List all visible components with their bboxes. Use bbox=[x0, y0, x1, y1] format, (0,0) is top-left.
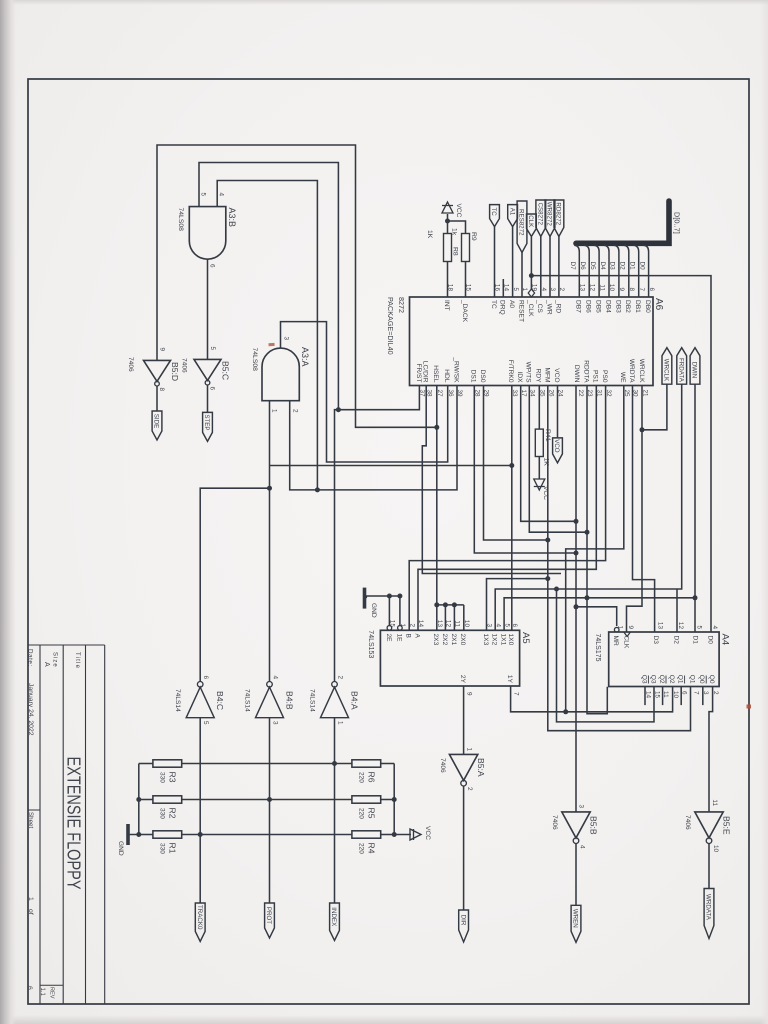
svg-text:Q1: Q1 bbox=[688, 675, 695, 684]
svg-text:12: 12 bbox=[588, 284, 595, 292]
title block bbox=[104, 645, 106, 1004]
svg-text:74LS08: 74LS08 bbox=[251, 348, 258, 372]
wire A4 output stub bbox=[662, 687, 664, 706]
svg-text:CLK: CLK bbox=[527, 215, 534, 228]
wire 2E to GND bbox=[388, 596, 390, 626]
wire LC/DIR net bbox=[422, 386, 561, 574]
svg-text:R8: R8 bbox=[452, 247, 459, 256]
wire bus tap D4 to pin DB4 bbox=[604, 245, 609, 297]
svg-text:B5:D: B5:D bbox=[170, 362, 180, 381]
svg-text:1E: 1E bbox=[395, 634, 402, 643]
junction TRACK0-R4 junction bbox=[198, 832, 203, 837]
svg-text:WREN: WREN bbox=[572, 909, 579, 928]
wire bus tap D1 to pin DB1 bbox=[634, 245, 639, 297]
wire DS1 row bbox=[474, 386, 576, 554]
wire R3 bottom bbox=[139, 763, 153, 765]
svg-text:DB1: DB1 bbox=[634, 300, 641, 313]
svg-text:9: 9 bbox=[627, 625, 634, 629]
svg-text:6: 6 bbox=[648, 287, 655, 291]
svg-text:220: 220 bbox=[358, 772, 365, 783]
wire MFM row bbox=[548, 386, 691, 731]
node flag WRDATA bbox=[704, 889, 714, 939]
svg-text:3: 3 bbox=[272, 721, 279, 725]
wire bus tap D6 to pin DB6 bbox=[584, 245, 589, 297]
wire A4 Q0 to B5:E bbox=[709, 687, 713, 812]
svg-text:D1: D1 bbox=[691, 636, 698, 645]
AND gate A3:A 74LS08 bbox=[262, 348, 299, 401]
svg-text:8: 8 bbox=[628, 287, 635, 291]
junction WRCLK junction bbox=[640, 427, 645, 432]
svg-text:A4: A4 bbox=[720, 634, 731, 646]
svg-text:10: 10 bbox=[608, 284, 615, 292]
wire trunk MFM-1X3 bbox=[487, 579, 548, 631]
svg-text:R9: R9 bbox=[470, 232, 477, 241]
svg-text:B5:C: B5:C bbox=[221, 361, 231, 380]
svg-text:B4:A: B4:A bbox=[350, 691, 360, 710]
svg-text:10: 10 bbox=[672, 691, 679, 699]
wire R5-R2 column bbox=[182, 799, 352, 801]
svg-text:Q0: Q0 bbox=[698, 675, 705, 684]
inverter B4:A 74LS14 bbox=[321, 687, 349, 718]
AND gate A3:B 74LS08 bbox=[189, 207, 226, 260]
wire A4 output stub bbox=[644, 687, 646, 706]
svg-text:13: 13 bbox=[436, 620, 443, 628]
svg-text:1X3: 1X3 bbox=[482, 634, 489, 646]
svg-text:IDX: IDX bbox=[516, 372, 523, 384]
svg-text:5: 5 bbox=[503, 623, 510, 627]
inverter B5:E 7406 bbox=[695, 812, 723, 838]
wire bus tap D2 to pin DB2 bbox=[624, 245, 629, 297]
svg-text:74LS14: 74LS14 bbox=[174, 689, 181, 712]
svg-text:D0: D0 bbox=[706, 636, 713, 645]
svg-text:1X1: 1X1 bbox=[500, 634, 507, 646]
svg-text:VCC: VCC bbox=[424, 826, 431, 840]
svg-text:PS0: PS0 bbox=[601, 370, 608, 383]
inverter B5:B 7406 bbox=[562, 812, 590, 838]
svg-text:7406: 7406 bbox=[181, 358, 188, 373]
wire VCO row bbox=[557, 386, 559, 438]
svg-text:Date:: Date: bbox=[27, 649, 34, 667]
svg-text:D7: D7 bbox=[569, 262, 576, 271]
svg-text:_DACK: _DACK bbox=[461, 299, 468, 323]
svg-text:CS8272: CS8272 bbox=[537, 203, 544, 226]
svg-text:7406: 7406 bbox=[684, 815, 691, 830]
IC A4 74LS175 bbox=[609, 632, 719, 687]
svg-text:74LS175: 74LS175 bbox=[594, 634, 601, 662]
svg-text:2: 2 bbox=[466, 787, 473, 791]
wire B5:E out to WRDATA bbox=[708, 844, 710, 889]
svg-text:_CS: _CS bbox=[536, 299, 543, 313]
inverter B4:C 74LS14 bbox=[186, 687, 214, 718]
wire bus tap D3 to pin DB3 bbox=[614, 245, 619, 297]
svg-text:7: 7 bbox=[692, 691, 699, 695]
junction INDEX-R6 junction bbox=[332, 761, 337, 766]
svg-text:R3: R3 bbox=[167, 772, 177, 783]
svg-text:74LS14: 74LS14 bbox=[309, 689, 316, 712]
wire R4 column bbox=[381, 834, 395, 836]
junction row211 junction bbox=[554, 587, 559, 592]
wire pin DRQ stub bbox=[502, 279, 504, 297]
junction RDDTA junction bbox=[585, 595, 590, 600]
svg-text:EXTENSIE FLOPPY: EXTENSIE FLOPPY bbox=[64, 757, 84, 890]
node flag VCO bbox=[553, 438, 563, 463]
wire pin _RD to flag bbox=[558, 237, 560, 298]
node flag SIDE bbox=[152, 411, 162, 440]
svg-text:74LS08: 74LS08 bbox=[177, 208, 184, 232]
junction 2X1 junction bbox=[452, 602, 457, 607]
svg-text:2X3: 2X3 bbox=[432, 634, 439, 646]
svg-text:HDL: HDL bbox=[443, 369, 450, 383]
svg-text:2X2: 2X2 bbox=[441, 634, 448, 646]
svg-text:DB3: DB3 bbox=[614, 300, 621, 313]
svg-text:11: 11 bbox=[598, 284, 605, 291]
wire 2X1 row bbox=[453, 605, 455, 630]
svg-text:74LS14: 74LS14 bbox=[244, 689, 251, 712]
svg-text:FR/ST: FR/ST bbox=[415, 363, 422, 382]
junction DS1 junction bbox=[574, 551, 579, 556]
wire WRCLK flag to pin 21 bbox=[642, 384, 667, 430]
bus D[0..7] thick entry bbox=[576, 201, 669, 243]
svg-text:B5:A: B5:A bbox=[476, 758, 486, 777]
svg-text:330: 330 bbox=[159, 808, 166, 819]
svg-text:2E: 2E bbox=[385, 634, 392, 643]
svg-text:RES8272: RES8272 bbox=[518, 209, 525, 236]
svg-text:CLK: CLK bbox=[623, 636, 630, 649]
wire A3:B out to B5:C bbox=[207, 259, 209, 359]
svg-text:7: 7 bbox=[638, 287, 645, 291]
svg-text:DRQ: DRQ bbox=[499, 300, 506, 315]
wire 2X0 row bbox=[463, 605, 465, 630]
wire RDY to R41 bbox=[538, 386, 540, 430]
junction 1E junction bbox=[397, 594, 402, 599]
wire A5 1Y trunk bbox=[511, 686, 673, 712]
svg-text:PROT: PROT bbox=[265, 907, 272, 924]
wire CLK net trunk bbox=[531, 276, 711, 632]
svg-text:D0: D0 bbox=[638, 262, 645, 271]
node flag RES8272 bbox=[517, 201, 527, 253]
junction VCC pullup node bbox=[445, 219, 450, 224]
svg-text:B5:B: B5:B bbox=[589, 816, 599, 835]
svg-text:A: A bbox=[43, 662, 50, 667]
svg-text:1Y: 1Y bbox=[506, 675, 513, 684]
svg-text:12: 12 bbox=[677, 622, 684, 630]
sheet divider bbox=[28, 809, 40, 811]
svg-text:6: 6 bbox=[26, 986, 33, 990]
svg-text:REV: REV bbox=[49, 987, 55, 999]
svg-text:FRDATA: FRDATA bbox=[677, 358, 684, 383]
svg-text:B4:C: B4:C bbox=[215, 691, 225, 710]
resistor R5 bbox=[352, 796, 381, 803]
node flag STEP bbox=[203, 412, 213, 441]
wire B4:C in from TRACK0 bbox=[199, 718, 201, 903]
svg-text:9: 9 bbox=[466, 692, 473, 696]
wire B5:B out to WREN bbox=[575, 844, 577, 906]
svg-text:2Y: 2Y bbox=[459, 675, 466, 684]
wire R6 column bbox=[381, 763, 395, 765]
svg-text:11: 11 bbox=[454, 620, 461, 627]
resistor R2 bbox=[153, 796, 182, 803]
svg-text:2: 2 bbox=[292, 409, 299, 413]
junction VCC-R5 junction bbox=[392, 797, 397, 802]
svg-text:Q3: Q3 bbox=[640, 675, 647, 684]
svg-text:220: 220 bbox=[358, 843, 365, 854]
wire A4 MR trunk bbox=[576, 607, 617, 626]
wire bus tap D0 to pin DB0 bbox=[644, 245, 649, 297]
svg-text:1: 1 bbox=[466, 747, 473, 751]
svg-text:STEP: STEP bbox=[203, 414, 210, 430]
svg-text:1K: 1K bbox=[543, 458, 550, 467]
wire HSEL to B5:D bbox=[157, 145, 437, 427]
svg-text:6: 6 bbox=[209, 387, 216, 391]
node flag DIR bbox=[459, 910, 469, 942]
wire pin RESET to flag bbox=[521, 253, 523, 298]
svg-text:15: 15 bbox=[653, 691, 660, 699]
svg-text:WRDTA: WRDTA bbox=[628, 359, 635, 383]
svg-text:DB2: DB2 bbox=[624, 300, 631, 313]
wire GND rail bbox=[130, 764, 139, 835]
bubble pin MR of A4 bbox=[614, 627, 619, 632]
wire DWIN flag to A4 D1 bbox=[694, 384, 696, 632]
junction MFM trunk junction bbox=[545, 576, 550, 581]
svg-text:1: 1 bbox=[27, 897, 34, 901]
svg-text:TC: TC bbox=[490, 300, 497, 309]
svg-text:B4:B: B4:B bbox=[285, 691, 295, 710]
svg-text:DS0: DS0 bbox=[479, 370, 486, 383]
wire F/TRK0 1X0 row bbox=[511, 386, 513, 631]
svg-text:D[0..7]: D[0..7] bbox=[673, 212, 682, 234]
wire B4:A in from INDEX bbox=[334, 718, 336, 903]
svg-text:2: 2 bbox=[408, 623, 415, 627]
svg-text:1X2: 1X2 bbox=[491, 634, 498, 646]
wire VCC rail bbox=[394, 764, 411, 835]
svg-text:A6: A6 bbox=[653, 298, 664, 311]
wire W2 to A3:B pin5 bbox=[199, 163, 338, 410]
IC A5 74LS153 bbox=[380, 630, 519, 686]
junction F/TRK0 junction bbox=[509, 463, 514, 468]
wire A4 output stub bbox=[680, 687, 682, 706]
svg-text:DB7: DB7 bbox=[575, 300, 582, 313]
wire bus tap D5 to pin DB5 bbox=[594, 245, 599, 297]
inverter B5:C 7406 bbox=[194, 359, 221, 380]
wire VCC branch to R9 bbox=[448, 221, 466, 234]
wire IDX row bbox=[521, 386, 576, 522]
power GND symbol terminators bbox=[126, 824, 130, 845]
wire pin _CS to flag bbox=[540, 237, 542, 298]
svg-text:4: 4 bbox=[494, 623, 501, 627]
svg-text:5: 5 bbox=[202, 721, 209, 725]
resistor R9 bbox=[462, 234, 470, 262]
node flag PROT bbox=[265, 903, 275, 938]
svg-text:3: 3 bbox=[578, 804, 585, 808]
svg-text:6: 6 bbox=[511, 623, 518, 627]
svg-text:D5: D5 bbox=[589, 262, 596, 271]
wire pin WRCLK row to A4 CLK bbox=[627, 430, 643, 632]
svg-text:INDEX: INDEX bbox=[330, 907, 337, 926]
power VCC arrow terminators bbox=[410, 829, 421, 840]
svg-text:D3: D3 bbox=[652, 636, 659, 645]
svg-text:DB0: DB0 bbox=[644, 300, 651, 313]
wire pin _WR to flag bbox=[549, 237, 551, 298]
svg-text:A1: A1 bbox=[508, 208, 515, 216]
wire 2X2 row bbox=[444, 605, 446, 630]
svg-text:VCC: VCC bbox=[542, 486, 549, 500]
power VCC arrow RDY pullup bbox=[534, 479, 545, 490]
svg-text:2X0: 2X0 bbox=[459, 634, 466, 646]
power GND symbol A5 enables bbox=[363, 588, 367, 609]
svg-text:GND: GND bbox=[117, 841, 124, 856]
resistor R8 bbox=[444, 234, 452, 262]
REV box bbox=[40, 984, 63, 986]
svg-text:5: 5 bbox=[209, 346, 216, 350]
svg-text:B: B bbox=[405, 634, 412, 639]
node flag TC bbox=[490, 205, 500, 227]
wire R6-R3 column bbox=[182, 763, 352, 765]
svg-text:DWIN: DWIN bbox=[573, 365, 580, 383]
svg-text:R1: R1 bbox=[167, 843, 177, 854]
svg-text:A: A bbox=[413, 634, 420, 639]
svg-text:Q3: Q3 bbox=[649, 675, 656, 684]
svg-text:4: 4 bbox=[579, 845, 586, 849]
svg-text:DB4: DB4 bbox=[604, 300, 611, 313]
wire row 211 to A4 Q3 bbox=[557, 589, 655, 722]
svg-text:RDY: RDY bbox=[535, 369, 542, 384]
svg-text:DB6: DB6 bbox=[585, 300, 592, 313]
svg-text:2: 2 bbox=[337, 675, 344, 679]
junction DS0 junction bbox=[545, 538, 550, 543]
svg-text:3: 3 bbox=[283, 336, 290, 340]
svg-text:MR: MR bbox=[612, 636, 619, 646]
red scanner mark bbox=[268, 343, 274, 346]
junction CLK junction bbox=[529, 273, 534, 278]
wire WE row bbox=[566, 386, 624, 712]
wire 2X trunk bbox=[437, 604, 464, 606]
wire DWIN pin row to B5:B bbox=[575, 386, 577, 812]
inverter B5:D 7406 bbox=[144, 360, 171, 381]
wire GND stem bbox=[366, 596, 400, 598]
wire WP/TS row bbox=[529, 386, 587, 533]
wire B5:A out to DIR bbox=[463, 786, 465, 910]
svg-text:4: 4 bbox=[711, 625, 718, 629]
svg-text:R6: R6 bbox=[366, 772, 376, 783]
svg-text:220: 220 bbox=[358, 808, 365, 819]
svg-text:_RW/SK: _RW/SK bbox=[452, 356, 459, 383]
svg-text:B5:E: B5:E bbox=[722, 816, 732, 835]
svg-text:PS1: PS1 bbox=[592, 370, 599, 383]
svg-text:8: 8 bbox=[158, 388, 165, 392]
svg-text:10: 10 bbox=[712, 845, 719, 853]
wire B5:C out to STEP bbox=[207, 385, 209, 412]
svg-text:DWIN: DWIN bbox=[691, 362, 698, 379]
svg-text:7406: 7406 bbox=[127, 357, 134, 372]
junction WE-1Y junction bbox=[563, 709, 568, 714]
svg-text:of: of bbox=[27, 909, 34, 915]
junction 2E junction bbox=[387, 594, 392, 599]
svg-text:Q0: Q0 bbox=[708, 675, 715, 684]
junction pin1 junction bbox=[267, 486, 272, 491]
wire R4-R1 column bbox=[182, 834, 352, 836]
junction 2X3 junction bbox=[434, 602, 439, 607]
svg-text:22: 22 bbox=[577, 390, 584, 398]
svg-text:WRDATA: WRDATA bbox=[705, 894, 712, 921]
node flag CS8272 bbox=[536, 200, 546, 237]
wire A4 output stub bbox=[702, 687, 704, 706]
wire 1E to GND bbox=[399, 596, 401, 626]
svg-text:5: 5 bbox=[200, 192, 207, 196]
svg-text:Size: Size bbox=[52, 652, 58, 668]
svg-text:DB5: DB5 bbox=[595, 300, 602, 313]
svg-text:10: 10 bbox=[463, 620, 470, 628]
svg-text:Q2: Q2 bbox=[658, 675, 665, 684]
wire pin _CLK to flag bbox=[530, 237, 532, 289]
resistor R4 bbox=[352, 831, 381, 838]
IC A6 8272 body bbox=[410, 297, 654, 386]
wire A5 2Y to B5:A bbox=[463, 686, 465, 754]
node flag WREN bbox=[571, 905, 581, 942]
svg-text:TRACK0: TRACK0 bbox=[196, 905, 203, 930]
junction WP/TS junction bbox=[585, 530, 590, 535]
svg-text:WRCLK: WRCLK bbox=[638, 359, 645, 383]
bubble pin 1E of A5 bbox=[398, 626, 403, 631]
svg-text:LC/DIR: LC/DIR bbox=[422, 361, 429, 383]
wire DS0 row bbox=[484, 386, 548, 541]
svg-text:9: 9 bbox=[618, 287, 625, 291]
svg-text:RESET: RESET bbox=[517, 300, 524, 322]
wire PS1 to A5 A bbox=[418, 386, 596, 631]
wire trunk DWIN-flag RDDTA 1X1 bbox=[504, 598, 695, 631]
svg-text:6: 6 bbox=[209, 264, 216, 268]
svg-text:1.1: 1.1 bbox=[39, 988, 45, 997]
svg-text:WRCLK: WRCLK bbox=[663, 359, 670, 382]
junction MR junction bbox=[574, 604, 579, 609]
svg-text:A0: A0 bbox=[508, 300, 515, 308]
wire pin A0 to flag A1 bbox=[512, 227, 514, 297]
wire bus tap D7 to pin DB7 bbox=[574, 245, 579, 297]
svg-text:_CLK: _CLK bbox=[527, 299, 534, 317]
junction W3 junction bbox=[315, 487, 320, 492]
junction IDX junction bbox=[574, 519, 579, 524]
svg-text:DIR: DIR bbox=[459, 915, 466, 926]
svg-text:1X0: 1X0 bbox=[507, 634, 514, 646]
svg-text:Sheet: Sheet bbox=[27, 812, 34, 828]
svg-text:VCO: VCO bbox=[553, 439, 560, 453]
inverter B4:B 74LS14 bbox=[256, 687, 284, 718]
resistor R6 bbox=[352, 760, 381, 767]
svg-text:MFM: MFM bbox=[544, 367, 551, 382]
wire FRDATA flag trunk bbox=[495, 384, 682, 630]
resistor R41 bbox=[535, 429, 543, 456]
wire pin TC to flag bbox=[494, 227, 496, 297]
svg-text:1K: 1K bbox=[426, 230, 433, 239]
wire F/TRK0 drop bbox=[270, 465, 512, 467]
svg-text:1k: 1k bbox=[451, 228, 458, 236]
wire R9 to pin _DACK bbox=[465, 262, 467, 298]
wire R5 column bbox=[381, 799, 395, 801]
svg-text:PACKAGE=DIL40: PACKAGE=DIL40 bbox=[386, 297, 395, 355]
wire W3 to A3:B pin4 bbox=[217, 181, 317, 490]
node flag A1 bbox=[508, 205, 518, 227]
junction GND-R1 junction bbox=[136, 832, 141, 837]
wire A3:A pin1 B4 outs bbox=[269, 401, 271, 682]
node flag FRDATA bbox=[677, 348, 687, 385]
svg-text:SIDE: SIDE bbox=[153, 414, 160, 428]
wire RDDTA row bbox=[587, 386, 607, 714]
svg-text:R5: R5 bbox=[366, 808, 376, 819]
wire R2 bottom bbox=[139, 799, 153, 801]
svg-text:A3:B: A3:B bbox=[227, 208, 237, 228]
svg-text:WE: WE bbox=[619, 372, 626, 383]
node flag RD8272 bbox=[554, 200, 564, 237]
wire R8 to pin INT bbox=[447, 262, 449, 298]
